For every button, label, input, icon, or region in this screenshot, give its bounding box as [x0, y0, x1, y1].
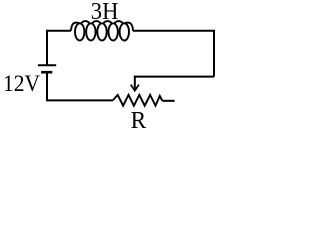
arrowhead of wiper pointing down at resistor: [131, 85, 139, 91]
wire: inductor to top-right corner and down right side: [133, 31, 214, 77]
wire: rheostat wiper feed from right side: [135, 77, 214, 89]
wire: resistor tail to the right: [162, 100, 174, 102]
svg-text:R: R: [131, 108, 147, 134]
resistor R (zigzag body): [113, 95, 163, 106]
wire: battery positive up left side and across top to inductor: [47, 31, 71, 66]
battery B1 short plate (negative): [41, 71, 52, 74]
inductor L1 3H: [71, 21, 133, 40]
battery B1 long plate (positive): [38, 64, 56, 66]
svg-text:12V: 12V: [3, 71, 40, 97]
wire: battery negative down left side and across bottom to resistor: [47, 72, 113, 100]
